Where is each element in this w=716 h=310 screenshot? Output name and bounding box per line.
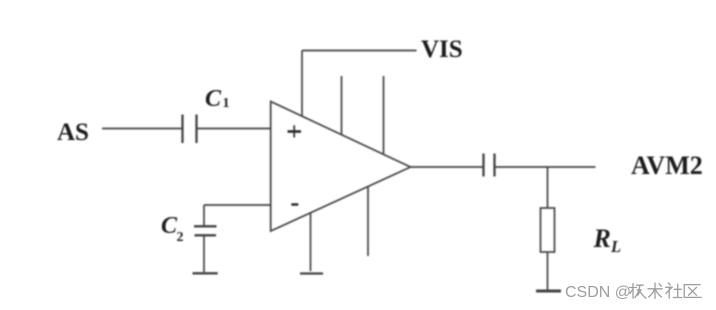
svg-text:CSDN @: CSDN @ xyxy=(565,284,631,301)
svg-text:L: L xyxy=(610,237,621,256)
svg-text:C: C xyxy=(205,86,222,112)
svg-text:C: C xyxy=(161,213,178,239)
svg-text:AS: AS xyxy=(57,119,89,146)
svg-text:2: 2 xyxy=(177,230,184,245)
svg-text:VIS: VIS xyxy=(421,36,463,63)
svg-text:AVM2: AVM2 xyxy=(631,151,703,180)
svg-text:R: R xyxy=(593,224,611,253)
svg-text:1: 1 xyxy=(223,96,230,111)
